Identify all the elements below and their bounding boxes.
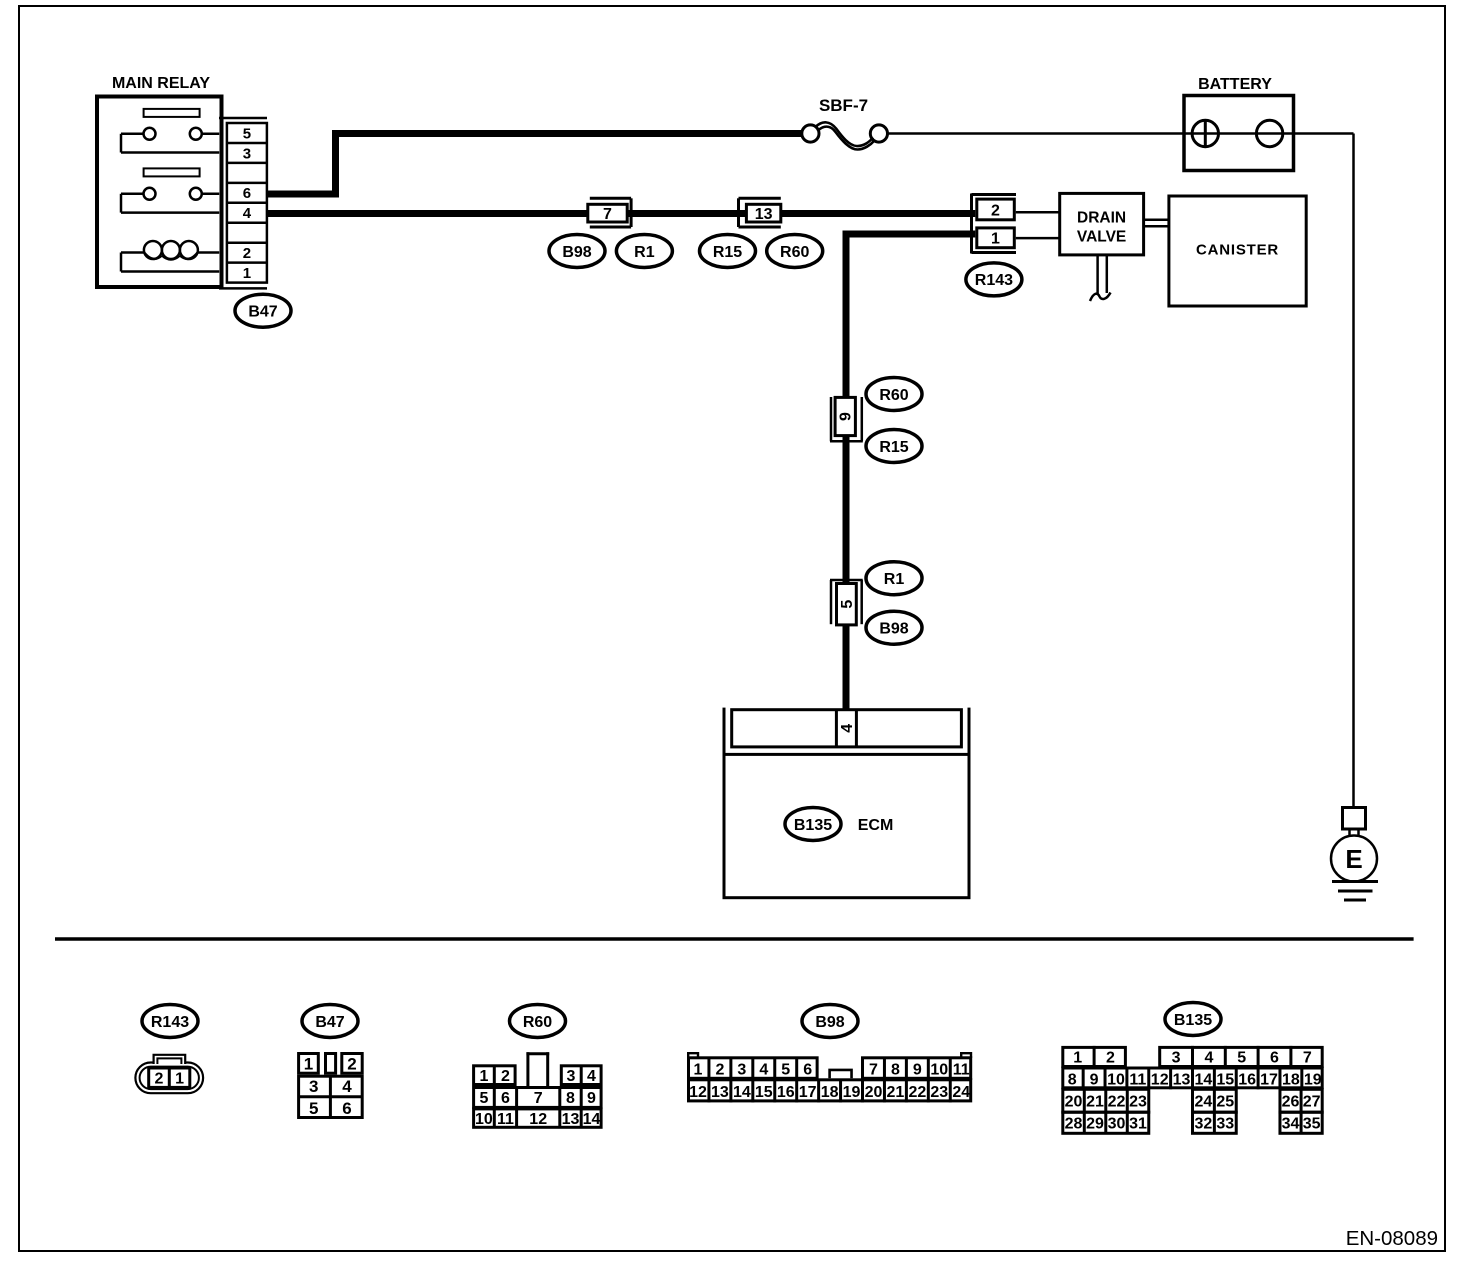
svg-text:11: 11	[497, 1111, 514, 1128]
svg-text:20: 20	[865, 1084, 883, 1101]
svg-text:28: 28	[1065, 1116, 1083, 1133]
svg-text:6: 6	[1270, 1050, 1279, 1067]
svg-text:27: 27	[1303, 1094, 1321, 1111]
svg-text:6: 6	[342, 1099, 351, 1118]
svg-text:21: 21	[1086, 1094, 1104, 1111]
svg-text:4: 4	[759, 1062, 768, 1079]
svg-text:29: 29	[1086, 1116, 1104, 1133]
svg-text:12: 12	[689, 1084, 707, 1101]
svg-text:15: 15	[1216, 1071, 1234, 1088]
svg-text:26: 26	[1282, 1094, 1300, 1111]
svg-text:13: 13	[1173, 1071, 1191, 1088]
svg-text:11: 11	[953, 1062, 970, 1079]
svg-text:4: 4	[1204, 1050, 1213, 1067]
svg-text:9: 9	[838, 412, 855, 421]
svg-text:4: 4	[342, 1077, 352, 1096]
svg-text:R15: R15	[713, 244, 742, 261]
svg-text:3: 3	[1172, 1050, 1181, 1067]
svg-text:2: 2	[501, 1068, 510, 1085]
svg-text:19: 19	[843, 1084, 861, 1101]
svg-text:7: 7	[1303, 1050, 1312, 1067]
svg-text:2: 2	[347, 1055, 356, 1074]
svg-text:R60: R60	[879, 387, 908, 404]
svg-text:10: 10	[1107, 1071, 1125, 1088]
svg-text:R143: R143	[975, 272, 1013, 289]
svg-text:2: 2	[715, 1062, 724, 1079]
svg-text:10: 10	[930, 1062, 948, 1079]
svg-text:1: 1	[175, 1071, 184, 1088]
svg-text:1: 1	[479, 1068, 488, 1085]
svg-text:4: 4	[839, 724, 856, 733]
svg-text:R143: R143	[151, 1014, 189, 1031]
svg-text:16: 16	[1238, 1071, 1256, 1088]
svg-text:5: 5	[839, 600, 856, 609]
svg-text:13: 13	[755, 206, 773, 223]
svg-text:R1: R1	[884, 571, 905, 588]
svg-text:18: 18	[1282, 1071, 1300, 1088]
svg-text:3: 3	[567, 1068, 576, 1085]
svg-text:10: 10	[475, 1111, 493, 1128]
svg-text:2: 2	[155, 1071, 164, 1088]
svg-text:3: 3	[737, 1062, 746, 1079]
svg-text:17: 17	[799, 1084, 817, 1101]
svg-text:B135: B135	[1174, 1012, 1212, 1029]
svg-text:23: 23	[1129, 1094, 1147, 1111]
svg-text:18: 18	[821, 1084, 839, 1101]
svg-text:1: 1	[304, 1055, 313, 1074]
svg-text:B98: B98	[562, 244, 591, 261]
svg-text:24: 24	[1195, 1094, 1213, 1111]
svg-text:23: 23	[930, 1084, 948, 1101]
svg-text:5: 5	[243, 125, 251, 142]
svg-text:6: 6	[501, 1090, 510, 1107]
svg-text:5: 5	[479, 1090, 488, 1107]
svg-text:E: E	[1345, 844, 1362, 874]
svg-text:2: 2	[991, 202, 1000, 219]
svg-text:1: 1	[991, 231, 1000, 248]
svg-text:CANISTER: CANISTER	[1196, 242, 1279, 259]
svg-text:4: 4	[587, 1068, 596, 1085]
svg-text:24: 24	[952, 1084, 970, 1101]
svg-text:7: 7	[534, 1090, 543, 1107]
svg-text:6: 6	[243, 185, 251, 202]
svg-text:6: 6	[803, 1062, 812, 1079]
svg-text:34: 34	[1282, 1116, 1300, 1133]
svg-text:1: 1	[1073, 1050, 1082, 1067]
svg-text:R60: R60	[523, 1014, 552, 1031]
svg-text:31: 31	[1129, 1116, 1147, 1133]
svg-text:MAIN RELAY: MAIN RELAY	[112, 75, 210, 92]
svg-text:5: 5	[309, 1099, 318, 1118]
svg-text:8: 8	[891, 1062, 900, 1079]
svg-text:32: 32	[1195, 1116, 1213, 1133]
svg-text:16: 16	[777, 1084, 795, 1101]
svg-text:3: 3	[243, 145, 251, 162]
svg-text:33: 33	[1216, 1116, 1234, 1133]
svg-text:19: 19	[1304, 1071, 1322, 1088]
svg-text:B98: B98	[815, 1014, 844, 1031]
svg-text:4: 4	[243, 205, 252, 222]
svg-text:7: 7	[869, 1062, 878, 1079]
svg-text:1: 1	[243, 265, 251, 282]
svg-text:14: 14	[733, 1084, 751, 1101]
svg-text:EN-08089: EN-08089	[1346, 1227, 1438, 1250]
svg-text:2: 2	[243, 245, 251, 262]
svg-text:22: 22	[908, 1084, 926, 1101]
svg-text:R15: R15	[879, 439, 908, 456]
svg-text:5: 5	[781, 1062, 790, 1079]
svg-text:21: 21	[887, 1084, 905, 1101]
svg-text:3: 3	[309, 1077, 318, 1096]
svg-text:BATTERY: BATTERY	[1198, 76, 1272, 93]
svg-text:2: 2	[1106, 1050, 1115, 1067]
svg-text:13: 13	[562, 1111, 580, 1128]
svg-text:11: 11	[1129, 1071, 1146, 1088]
svg-text:14: 14	[1195, 1071, 1213, 1088]
svg-text:9: 9	[587, 1090, 596, 1107]
svg-text:7: 7	[603, 206, 612, 223]
svg-text:R60: R60	[780, 244, 809, 261]
svg-text:B98: B98	[879, 621, 908, 638]
svg-text:8: 8	[1068, 1071, 1077, 1088]
svg-text:12: 12	[1151, 1071, 1169, 1088]
svg-text:DRAIN: DRAIN	[1077, 210, 1126, 227]
svg-text:35: 35	[1303, 1116, 1321, 1133]
svg-text:B47: B47	[248, 304, 277, 321]
svg-text:VALVE: VALVE	[1077, 229, 1126, 246]
svg-text:9: 9	[913, 1062, 922, 1079]
svg-text:25: 25	[1216, 1094, 1234, 1111]
svg-text:B47: B47	[315, 1014, 344, 1031]
svg-text:22: 22	[1108, 1094, 1126, 1111]
svg-text:17: 17	[1260, 1071, 1278, 1088]
svg-text:20: 20	[1065, 1094, 1083, 1111]
svg-text:15: 15	[755, 1084, 773, 1101]
svg-text:9: 9	[1090, 1071, 1099, 1088]
svg-text:5: 5	[1237, 1050, 1246, 1067]
svg-text:SBF-7: SBF-7	[819, 96, 868, 115]
svg-text:12: 12	[529, 1111, 547, 1128]
svg-text:14: 14	[583, 1111, 601, 1128]
svg-text:1: 1	[694, 1062, 703, 1079]
svg-text:B135: B135	[794, 817, 832, 834]
svg-text:8: 8	[566, 1090, 575, 1107]
svg-text:13: 13	[711, 1084, 729, 1101]
svg-text:ECM: ECM	[858, 817, 894, 834]
svg-text:R1: R1	[634, 244, 655, 261]
svg-text:30: 30	[1108, 1116, 1126, 1133]
